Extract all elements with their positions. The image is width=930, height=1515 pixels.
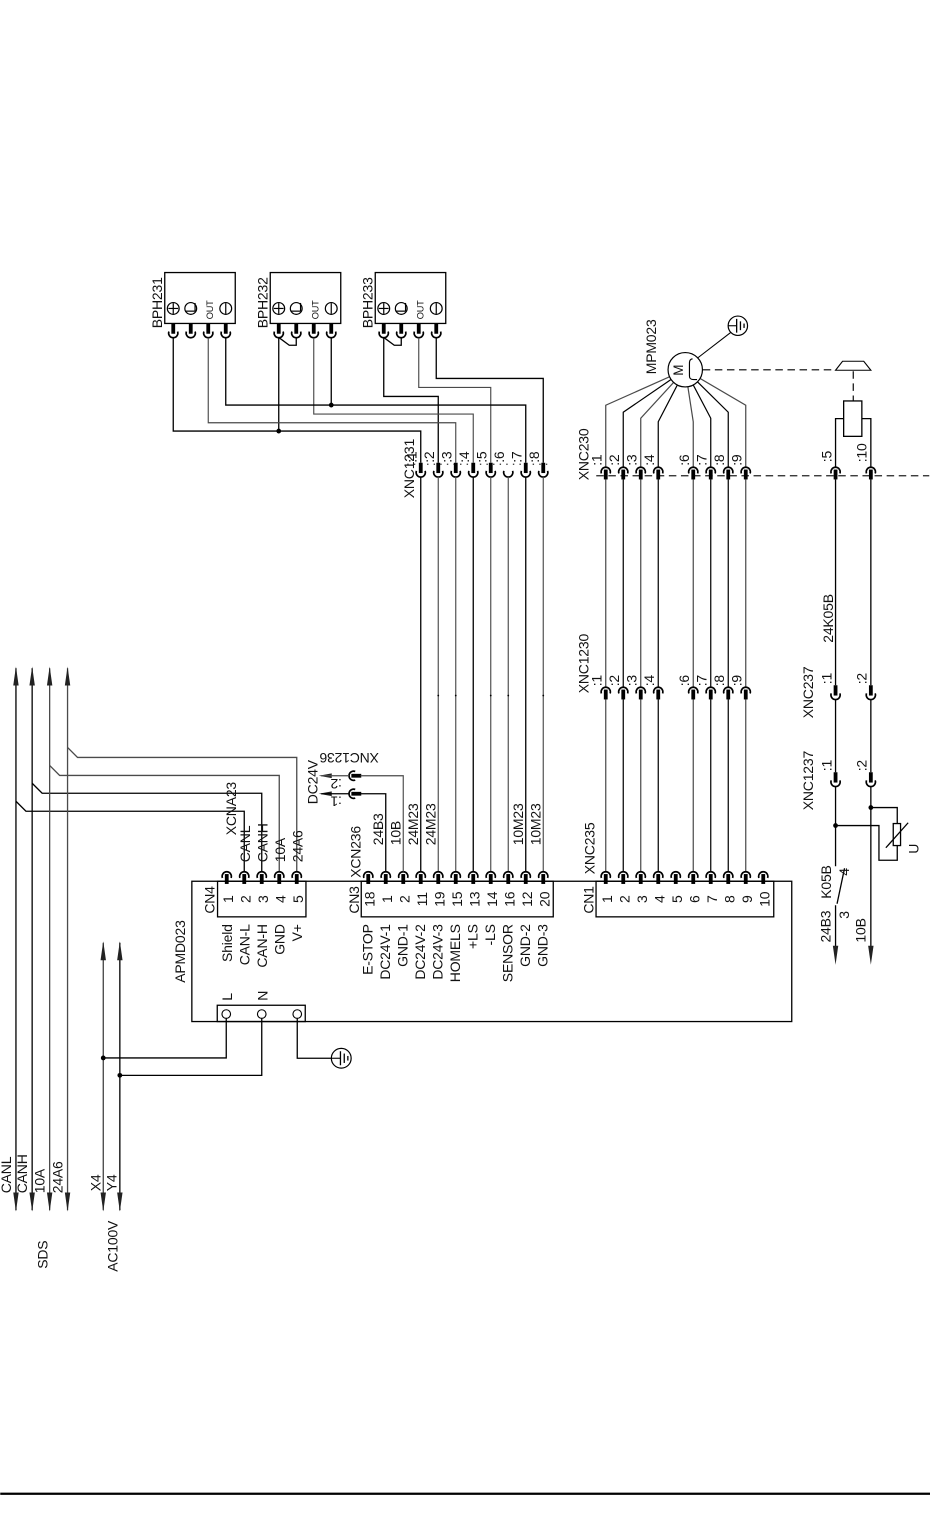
wire BPH233 OUT to XNC1231:5 bbox=[419, 338, 491, 463]
svg-text:10A: 10A bbox=[272, 837, 288, 862]
wire DC24V to XNC1236:1 to CN3 pin1 (24B3) bbox=[321, 793, 349, 795]
wire net BPH233 +V/shield to XNC1231:2 bbox=[384, 338, 439, 463]
protective earth lead of MPM023 bbox=[697, 332, 731, 358]
svg-text::1: :1 bbox=[818, 673, 834, 685]
svg-text:XNC235: XNC235 bbox=[581, 822, 597, 874]
wire BPH232 OUT to XNC1231:4 bbox=[314, 338, 474, 463]
svg-text:10B: 10B bbox=[387, 821, 403, 845]
svg-text::1: :1 bbox=[588, 454, 604, 466]
photoelectric sensor BPH231 bbox=[165, 273, 236, 324]
svg-text:3: 3 bbox=[634, 895, 650, 903]
svg-text:24B3: 24B3 bbox=[818, 910, 834, 942]
svg-text:APMD023: APMD023 bbox=[172, 920, 188, 983]
svg-text:4: 4 bbox=[836, 868, 852, 876]
wire net +V sensors BPH231/BPH232 to XNC1231:1 bbox=[173, 338, 421, 463]
svg-text::1: :1 bbox=[818, 760, 834, 772]
controller APMD023 bbox=[192, 881, 792, 1021]
svg-text::2: :2 bbox=[330, 776, 342, 792]
branch 10A to CN4 bbox=[50, 765, 280, 871]
svg-text:1: 1 bbox=[599, 895, 615, 903]
svg-text:19: 19 bbox=[431, 891, 447, 907]
svg-text:8: 8 bbox=[721, 895, 737, 903]
svg-text:10A: 10A bbox=[32, 1168, 48, 1193]
SDS bus wires CANL CANH 10A 24A6 bbox=[15, 668, 17, 1210]
wire net 0V BPH231/BPH232 to XNC1231:7 bbox=[226, 338, 526, 463]
svg-text:10B: 10B bbox=[852, 918, 868, 942]
svg-text:DC24V: DC24V bbox=[304, 759, 320, 804]
svg-text:OUT: OUT bbox=[205, 300, 215, 319]
svg-text:BPH233: BPH233 bbox=[359, 277, 375, 328]
svg-text:5: 5 bbox=[669, 895, 685, 903]
svg-text:AC100V: AC100V bbox=[104, 1220, 120, 1272]
svg-text:CAN-L: CAN-L bbox=[236, 924, 252, 965]
svg-text:CN3: CN3 bbox=[346, 886, 362, 914]
svg-text::8: :8 bbox=[711, 675, 727, 687]
svg-text:CN1: CN1 bbox=[581, 886, 597, 914]
branch 24A6 to CN4 bbox=[68, 747, 297, 871]
svg-text:12: 12 bbox=[519, 891, 535, 907]
connector CN1 on APMD023 bbox=[596, 881, 774, 917]
svg-text::5: :5 bbox=[473, 451, 489, 463]
wire BPH232 pin2 shield jumper bbox=[279, 337, 297, 345]
wire XNC1237:1 down to contact K05B bbox=[835, 787, 837, 867]
svg-text::1: :1 bbox=[330, 793, 342, 809]
svg-text:4: 4 bbox=[272, 895, 288, 903]
svg-text:N: N bbox=[254, 991, 270, 1001]
DC24V supply arrows bbox=[319, 773, 332, 778]
svg-text:18: 18 bbox=[361, 891, 377, 907]
svg-text:OUT: OUT bbox=[310, 300, 320, 319]
svg-text:CANL: CANL bbox=[237, 825, 253, 862]
svg-text:V+: V+ bbox=[289, 924, 305, 941]
svg-text:1: 1 bbox=[220, 895, 236, 903]
wire XNC230:5 to XNC237:1 (24K05B) bbox=[835, 479, 837, 685]
svg-text:GND-2: GND-2 bbox=[517, 924, 533, 967]
svg-text:HOMELS: HOMELS bbox=[447, 924, 463, 982]
svg-text:24B3: 24B3 bbox=[370, 813, 386, 845]
svg-text:CANH: CANH bbox=[14, 1154, 30, 1193]
svg-text:15: 15 bbox=[449, 891, 465, 907]
svg-text:BPH231: BPH231 bbox=[149, 277, 165, 328]
varistor U bbox=[893, 824, 900, 846]
svg-text:24A6: 24A6 bbox=[289, 830, 305, 862]
svg-text:5: 5 bbox=[290, 895, 306, 903]
svg-text:XCN236: XCN236 bbox=[347, 826, 363, 878]
svg-text:XNC1236: XNC1236 bbox=[319, 750, 379, 766]
svg-text::7: :7 bbox=[693, 454, 709, 466]
svg-text::6: :6 bbox=[676, 675, 692, 687]
svg-text:DC24V-1: DC24V-1 bbox=[377, 924, 393, 980]
wire XNC230:10 to XNC237:2 bbox=[870, 479, 872, 685]
svg-text::4: :4 bbox=[641, 454, 657, 466]
svg-text::8: :8 bbox=[711, 454, 727, 466]
svg-text:K05B: K05B bbox=[818, 865, 834, 898]
svg-text:24M23: 24M23 bbox=[422, 803, 438, 845]
wire 24B3 off-page arrow bbox=[835, 905, 837, 946]
wire BPH233 0V to XNC1231:8 bbox=[436, 338, 543, 463]
svg-text:XNC237: XNC237 bbox=[800, 666, 816, 718]
wire 10B off-page arrow bbox=[868, 946, 873, 965]
svg-text::6: :6 bbox=[676, 454, 692, 466]
svg-text::9: :9 bbox=[728, 675, 744, 687]
svg-text:6: 6 bbox=[686, 895, 702, 903]
svg-text:CANH: CANH bbox=[254, 823, 270, 862]
wire BPH233 pin2 shield jumper bbox=[384, 337, 402, 345]
svg-text:7: 7 bbox=[704, 895, 720, 903]
AC100V feed wires X4 Y4 bbox=[102, 943, 104, 1211]
svg-text::2: :2 bbox=[854, 760, 870, 772]
BPH232 pins bbox=[274, 323, 283, 337]
cable XNC235 wires XNC1230 to CN1 bbox=[605, 699, 607, 871]
varistor U branch wiring bbox=[871, 808, 897, 824]
svg-text:10: 10 bbox=[756, 891, 772, 907]
wire DC24V to XNC1236:2 to CN3 pin2 (10B) bbox=[321, 775, 349, 777]
svg-text:GND-3: GND-3 bbox=[534, 924, 550, 967]
svg-text:11: 11 bbox=[414, 892, 430, 907]
svg-text::8: :8 bbox=[526, 451, 542, 463]
svg-text:XNC1231: XNC1231 bbox=[401, 439, 417, 499]
svg-text:XNC230: XNC230 bbox=[576, 428, 592, 480]
wire BPH231 OUT to XNC1231:3 bbox=[208, 338, 456, 463]
svg-text::5: :5 bbox=[818, 451, 834, 463]
svg-text:3: 3 bbox=[255, 895, 271, 903]
wires XNC237 to XNC1237 bbox=[835, 700, 837, 773]
svg-text::3: :3 bbox=[438, 451, 454, 463]
earth ground symbol at motor bbox=[728, 316, 747, 335]
svg-text::1: :1 bbox=[403, 451, 419, 463]
svg-text:24K05B: 24K05B bbox=[820, 594, 836, 643]
wire PE to earth bbox=[297, 1018, 331, 1058]
svg-text:CANL: CANL bbox=[0, 1156, 14, 1193]
dashed mechanical link motor to brake bbox=[703, 369, 836, 371]
photoelectric sensor BPH233 bbox=[375, 273, 446, 324]
svg-text:SENSOR: SENSOR bbox=[499, 924, 515, 982]
svg-text:10M23: 10M23 bbox=[527, 803, 543, 845]
svg-text:XNC1237: XNC1237 bbox=[800, 751, 816, 811]
svg-text::7: :7 bbox=[508, 451, 524, 463]
svg-text:Shield: Shield bbox=[219, 924, 235, 962]
svg-text:CN4: CN4 bbox=[201, 886, 217, 914]
svg-text::7: :7 bbox=[693, 675, 709, 687]
svg-text:BPH232: BPH232 bbox=[254, 277, 270, 328]
svg-text:-LS: -LS bbox=[482, 924, 498, 945]
svg-text::6: :6 bbox=[491, 451, 507, 463]
brake horn symbol bbox=[836, 361, 871, 370]
svg-text:M: M bbox=[671, 365, 686, 376]
svg-text::9: :9 bbox=[728, 454, 744, 466]
svg-text:DC24V-3: DC24V-3 bbox=[429, 924, 445, 980]
svg-text:16: 16 bbox=[501, 891, 517, 907]
svg-text:X4: X4 bbox=[87, 1174, 103, 1191]
svg-text:2: 2 bbox=[616, 895, 632, 903]
svg-text:E-STOP: E-STOP bbox=[359, 924, 375, 975]
svg-text:2: 2 bbox=[237, 895, 253, 903]
svg-text::10: :10 bbox=[854, 443, 870, 462]
svg-text:Y4: Y4 bbox=[104, 1174, 120, 1191]
AC input terminal block L N PE bbox=[217, 1005, 305, 1021]
svg-text:9: 9 bbox=[739, 895, 755, 903]
svg-text:2: 2 bbox=[396, 895, 412, 903]
svg-text:+LS: +LS bbox=[464, 924, 480, 949]
motor MPM023 symbol bbox=[668, 353, 702, 387]
svg-text::2: :2 bbox=[606, 675, 622, 687]
svg-text:DC24V-2: DC24V-2 bbox=[412, 924, 428, 980]
motor MPM023 wire fan to XNC230 bbox=[606, 370, 686, 468]
svg-text::3: :3 bbox=[623, 675, 639, 687]
wire N to Y4 bbox=[120, 1018, 262, 1075]
svg-text:3: 3 bbox=[836, 911, 852, 919]
connector CN3 on APMD023 bbox=[361, 881, 553, 917]
svg-text:10M23: 10M23 bbox=[510, 803, 526, 845]
BPH231 pins bbox=[169, 323, 178, 337]
svg-text:L: L bbox=[219, 993, 235, 1001]
connector CN4 on APMD023 bbox=[218, 881, 306, 917]
svg-text::2: :2 bbox=[421, 451, 437, 463]
svg-text:OUT: OUT bbox=[415, 300, 425, 319]
joint dots on cable XNC1230 level bbox=[437, 695, 439, 697]
wires XNC1231 to CN3 pins 11/19/15/13/14/16/12/20 bbox=[420, 477, 422, 872]
svg-text:13: 13 bbox=[466, 891, 482, 907]
svg-text:24M23: 24M23 bbox=[405, 803, 421, 845]
svg-text::1: :1 bbox=[588, 675, 604, 687]
svg-text:4: 4 bbox=[651, 895, 667, 903]
svg-text::4: :4 bbox=[456, 451, 472, 463]
svg-text:MPM023: MPM023 bbox=[643, 319, 659, 374]
svg-text:CAN-H: CAN-H bbox=[254, 924, 270, 967]
photoelectric sensor BPH232 bbox=[270, 273, 341, 324]
wire XNC1237:2 down (10B) bbox=[870, 787, 872, 947]
svg-text:GND: GND bbox=[271, 924, 287, 955]
svg-text::2: :2 bbox=[854, 673, 870, 685]
motor cable wires XNC230 to XNC1230 bbox=[605, 479, 607, 687]
svg-text:20: 20 bbox=[536, 891, 552, 907]
branch CANH to CN4 bbox=[32, 783, 262, 872]
branch CANL to CN4 bbox=[16, 801, 244, 872]
svg-text::4: :4 bbox=[641, 675, 657, 687]
BPH233 pins bbox=[379, 323, 388, 337]
brake coil bbox=[844, 401, 862, 436]
earth ground symbol at AC input bbox=[331, 1048, 351, 1068]
svg-text:14: 14 bbox=[484, 891, 500, 907]
svg-text:U: U bbox=[905, 844, 921, 854]
svg-text:SDS: SDS bbox=[34, 1241, 50, 1269]
contact K05B pins 3-4 bbox=[837, 868, 845, 904]
svg-text::2: :2 bbox=[606, 454, 622, 466]
wire L to X4 bbox=[103, 1018, 226, 1058]
svg-text::3: :3 bbox=[623, 454, 639, 466]
svg-text:GND-1: GND-1 bbox=[394, 924, 410, 967]
brake coil wires to XNC230 :5/:10 bbox=[836, 419, 844, 468]
svg-text:24A6: 24A6 bbox=[50, 1161, 66, 1193]
svg-text:1: 1 bbox=[379, 895, 395, 903]
